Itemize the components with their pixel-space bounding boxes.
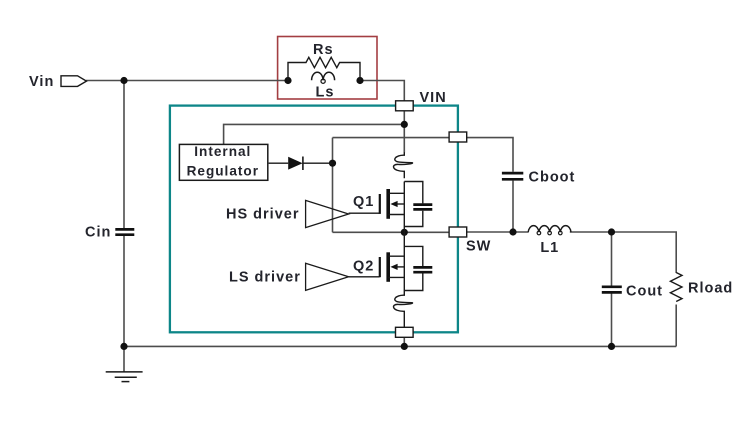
wire SW rail <box>333 231 467 233</box>
capacitor Cin <box>115 229 134 234</box>
wire Vin input rail <box>86 80 288 82</box>
svg-text:LS driver: LS driver <box>229 269 301 285</box>
svg-text:Vin: Vin <box>29 74 54 90</box>
svg-text:Cout: Cout <box>626 284 663 300</box>
svg-text:Ls: Ls <box>316 84 335 100</box>
parasitic highlight box (red) around Rs/Ls <box>278 37 377 100</box>
junction ground / Cin <box>120 343 127 350</box>
wire Cin bottom lead <box>123 236 125 347</box>
resistor Rs <box>288 57 360 80</box>
ground <box>106 372 143 382</box>
svg-text:L1: L1 <box>540 240 559 256</box>
wire bootstrap rail vertical <box>332 138 334 233</box>
capacitor Cout <box>602 287 622 293</box>
HS driver buffer <box>306 200 349 227</box>
wire SW pad to L1 <box>466 231 529 233</box>
svg-text:Q2: Q2 <box>353 259 374 275</box>
pin pad VIN <box>396 101 414 111</box>
wire Cin top lead <box>123 81 125 229</box>
junction Cboot / SW <box>509 228 516 235</box>
pin pad BOOT <box>449 132 467 142</box>
svg-text:Rload: Rload <box>688 281 733 297</box>
svg-text:HS driver: HS driver <box>226 207 299 223</box>
inductor parasitic top (Q1 drain bond) <box>394 152 413 178</box>
wire internal regulator to VIN node <box>224 124 405 144</box>
inductor parasitic bottom (Q2 source bond) <box>394 291 413 328</box>
junction diode / bootstrap rail <box>329 160 336 167</box>
IC boundary box (teal) <box>170 106 458 333</box>
wire bootstrap node to Cboot <box>333 138 514 172</box>
svg-text:Q1: Q1 <box>353 194 374 210</box>
junction Vin / Cin <box>120 77 127 84</box>
svg-text:Rs: Rs <box>313 42 334 58</box>
svg-text:SW: SW <box>466 238 491 254</box>
junction ground / Cout <box>608 343 615 350</box>
svg-text:VIN: VIN <box>420 90 447 106</box>
transistor Q1 <box>349 182 433 233</box>
svg-text:Internal: Internal <box>194 144 251 159</box>
node Vin input connector <box>29 74 87 90</box>
transistor Q2 <box>349 232 433 290</box>
wire ground stem <box>123 346 125 371</box>
junction ground / Q2 <box>401 343 408 350</box>
inductor Ls <box>312 72 335 83</box>
diode D1 <box>269 157 333 171</box>
junction L1 / Cout <box>608 228 615 235</box>
pin pad PGND <box>396 327 414 337</box>
wire Cout top lead <box>611 232 613 286</box>
wire L1 to Rload top corner <box>570 232 676 273</box>
svg-text:Cboot: Cboot <box>529 170 576 186</box>
wire VIN pad to internal VIN node <box>403 111 405 153</box>
svg-text:Cin: Cin <box>85 224 111 240</box>
junction VIN node <box>401 121 408 128</box>
wire Q2 source pad to ground rail <box>403 337 405 346</box>
internal regulator U1 <box>179 144 267 180</box>
junction Rs/Ls right <box>356 77 363 84</box>
resistor Rload <box>670 273 682 302</box>
junction Q1 source / SW node <box>401 229 408 236</box>
inductor L1 <box>528 226 571 235</box>
svg-text:Regulator: Regulator <box>187 164 259 179</box>
LS driver buffer <box>306 263 349 290</box>
wire Rload bottom lead <box>675 305 677 347</box>
junction Rs/Ls left <box>284 77 291 84</box>
capacitor Cboot <box>502 173 523 179</box>
wire Cout bottom lead <box>611 293 613 346</box>
wire Cboot to SW rail <box>512 181 514 232</box>
wire ground bottom rail <box>124 345 676 347</box>
pin pad SW <box>449 227 467 237</box>
wire Rs/Ls output to VIN pin corner <box>360 81 404 102</box>
